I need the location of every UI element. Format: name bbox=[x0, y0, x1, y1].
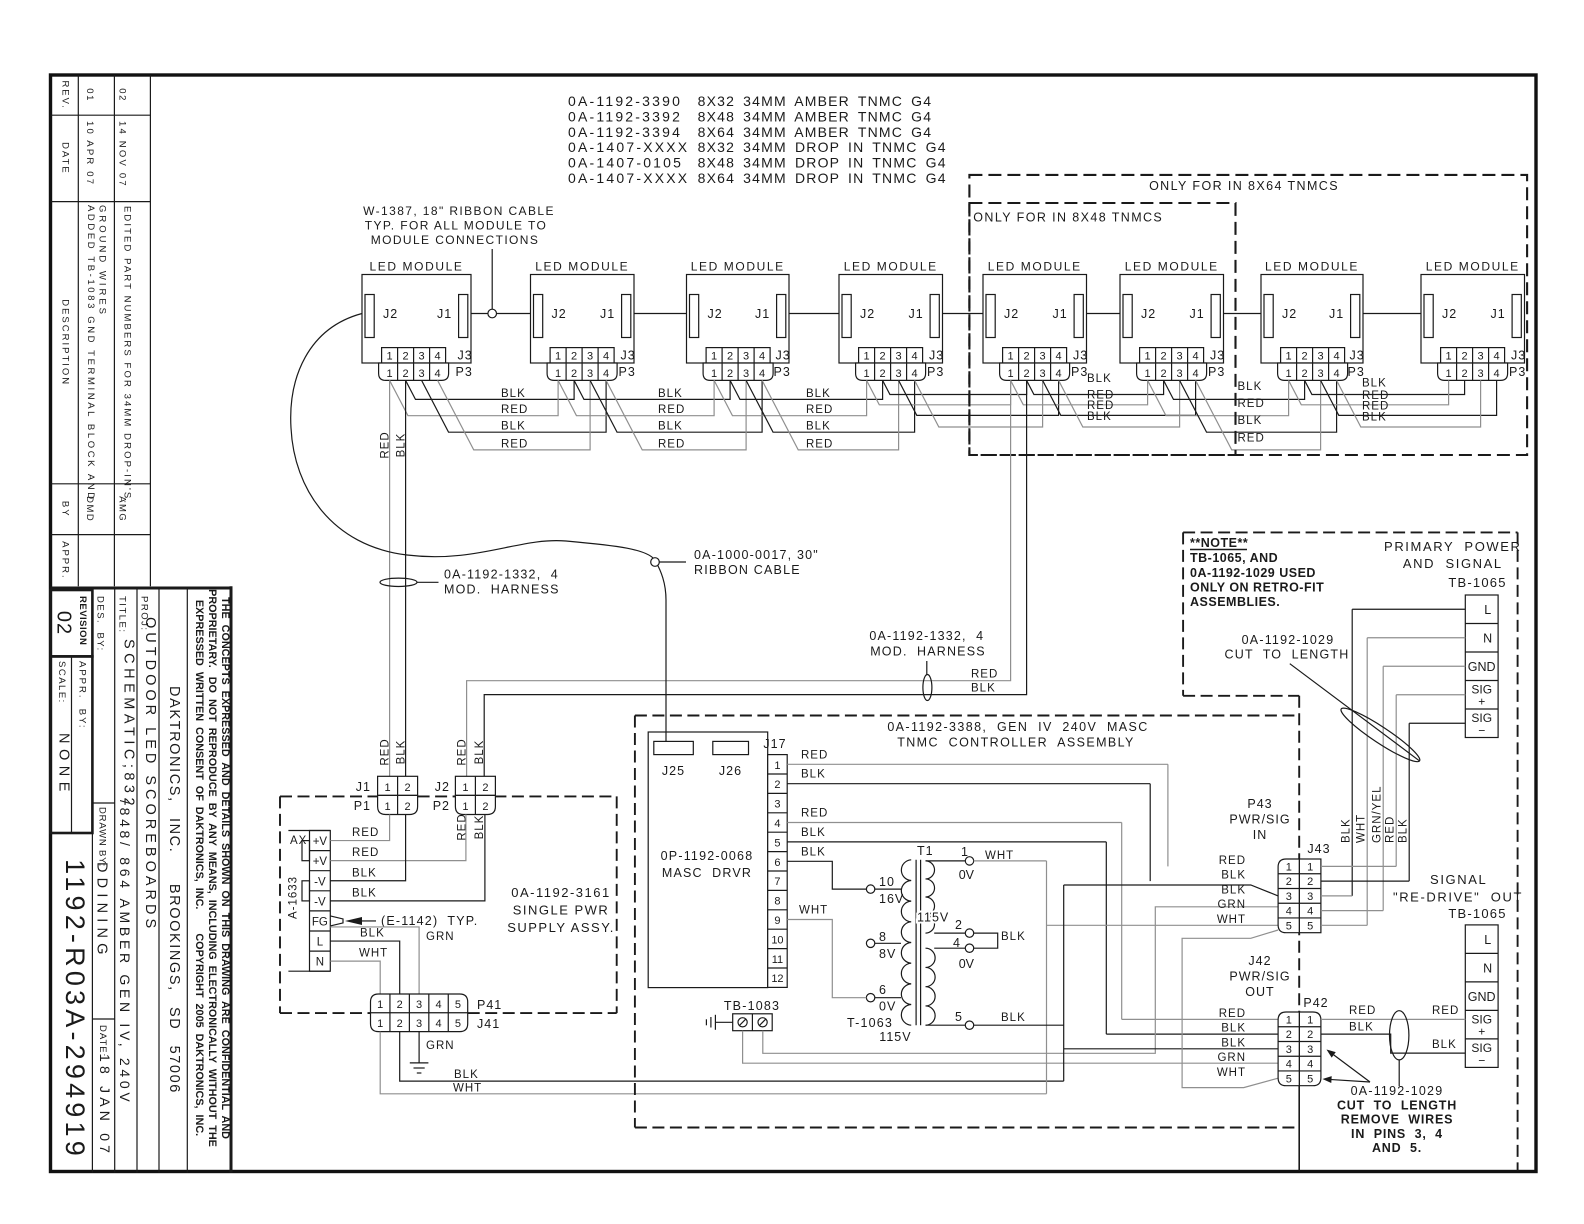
svg-text:T1: T1 bbox=[917, 844, 934, 858]
svg-text:J41: J41 bbox=[477, 1017, 500, 1031]
svg-text:1: 1 bbox=[1286, 861, 1292, 873]
svg-text:2: 2 bbox=[571, 351, 577, 363]
svg-text:RED: RED bbox=[806, 438, 833, 450]
svg-text:0V: 0V bbox=[959, 957, 975, 971]
svg-text:J2: J2 bbox=[708, 307, 723, 321]
svg-text:−: − bbox=[1478, 724, 1485, 738]
svg-text:J2: J2 bbox=[552, 307, 567, 321]
svg-text:SCHEMATIC;832: SCHEMATIC;832 bbox=[121, 639, 137, 810]
svg-text:02: 02 bbox=[117, 88, 128, 102]
svg-text:1: 1 bbox=[1446, 368, 1452, 380]
svg-text:1: 1 bbox=[1008, 351, 1014, 363]
svg-text:0A-1192-1029 USED: 0A-1192-1029 USED bbox=[1190, 566, 1316, 580]
svg-text:J3: J3 bbox=[1073, 349, 1088, 363]
svg-text:1: 1 bbox=[774, 760, 780, 772]
svg-text:1: 1 bbox=[711, 351, 717, 363]
svg-text:PWR/SIG: PWR/SIG bbox=[1229, 813, 1290, 827]
svg-text:RED: RED bbox=[1219, 1008, 1246, 1020]
svg-text:WHT: WHT bbox=[1356, 814, 1368, 843]
svg-text:10: 10 bbox=[879, 875, 895, 889]
svg-text:0P-1192-0068: 0P-1192-0068 bbox=[661, 849, 754, 863]
svg-text:2: 2 bbox=[1302, 351, 1308, 363]
svg-text:1: 1 bbox=[462, 782, 468, 794]
svg-text:4: 4 bbox=[1334, 351, 1340, 363]
svg-text:A-1633: A-1633 bbox=[288, 876, 300, 919]
svg-text:MOD. HARNESS: MOD. HARNESS bbox=[870, 645, 986, 659]
svg-text:DAKTRONICS, INC. BROOKINGS: DAKTRONICS, INC. BROOKINGS, SD 57006 bbox=[166, 686, 182, 1094]
svg-text:1: 1 bbox=[555, 368, 561, 380]
svg-text:P3: P3 bbox=[774, 365, 791, 379]
svg-text:RED: RED bbox=[658, 438, 685, 450]
svg-text:4: 4 bbox=[953, 936, 960, 950]
svg-text:2: 2 bbox=[1462, 351, 1468, 363]
svg-text:THE CONCEPTS EXPRESSED AND: THE CONCEPTS EXPRESSED AND DETAILS SHOWN… bbox=[219, 597, 231, 1139]
svg-text:J1: J1 bbox=[437, 307, 452, 321]
svg-text:BLK: BLK bbox=[1341, 818, 1353, 843]
svg-text:BLK: BLK bbox=[1087, 373, 1112, 385]
svg-text:BLK: BLK bbox=[801, 846, 826, 858]
svg-text:BLK: BLK bbox=[1238, 381, 1263, 393]
svg-text:4: 4 bbox=[1286, 1059, 1292, 1071]
svg-text:RED: RED bbox=[1238, 433, 1265, 445]
svg-text:J2: J2 bbox=[1282, 307, 1297, 321]
svg-text:DMD: DMD bbox=[84, 496, 95, 522]
svg-text:0V: 0V bbox=[959, 868, 975, 882]
svg-text:0A-1192-1029: 0A-1192-1029 bbox=[1351, 1084, 1444, 1098]
svg-text:1: 1 bbox=[1145, 351, 1151, 363]
svg-text:BLK: BLK bbox=[801, 827, 826, 839]
svg-text:CUT TO LENGTH: CUT TO LENGTH bbox=[1337, 1098, 1457, 1112]
svg-text:TYP. FOR ALL MODULE TO: TYP. FOR ALL MODULE TO bbox=[365, 219, 547, 233]
svg-text:TB-1083: TB-1083 bbox=[724, 999, 780, 1013]
svg-text:6: 6 bbox=[879, 983, 887, 997]
svg-text:16V: 16V bbox=[879, 892, 904, 906]
svg-text:0A-1192-3392: 0A-1192-3392 bbox=[568, 108, 682, 124]
svg-text:3: 3 bbox=[1286, 1044, 1292, 1056]
svg-text:J3: J3 bbox=[929, 349, 944, 363]
svg-text:BLK: BLK bbox=[352, 887, 377, 899]
svg-text:0A-1000-0017, 30": 0A-1000-0017, 30" bbox=[694, 548, 819, 562]
svg-text:4: 4 bbox=[1056, 351, 1062, 363]
svg-text:2: 2 bbox=[405, 801, 411, 813]
svg-text:BLK: BLK bbox=[352, 867, 377, 879]
svg-text:BLK: BLK bbox=[1362, 412, 1387, 424]
svg-text:2: 2 bbox=[397, 1018, 403, 1030]
svg-text:5: 5 bbox=[455, 1018, 461, 1030]
svg-text:DRAWN BY:: DRAWN BY: bbox=[97, 807, 108, 867]
svg-text:LED MODULE: LED MODULE bbox=[1426, 260, 1520, 274]
svg-text:T-1063: T-1063 bbox=[847, 1016, 893, 1030]
svg-text:4: 4 bbox=[759, 351, 765, 363]
svg-text:GRN/YEL: GRN/YEL bbox=[1372, 786, 1384, 844]
svg-text:RED: RED bbox=[457, 813, 469, 840]
svg-text:RED: RED bbox=[352, 847, 379, 859]
svg-text:ASSEMBLIES.: ASSEMBLIES. bbox=[1190, 595, 1280, 609]
svg-text:0A-1192-3161: 0A-1192-3161 bbox=[511, 885, 610, 900]
svg-text:6: 6 bbox=[774, 857, 780, 869]
svg-text:4: 4 bbox=[1494, 368, 1500, 380]
svg-text:L: L bbox=[317, 937, 324, 949]
svg-text:J3: J3 bbox=[1210, 349, 1225, 363]
svg-text:RED: RED bbox=[1432, 1005, 1459, 1017]
svg-text:2: 2 bbox=[1307, 876, 1313, 888]
svg-text:PROPRIETARY. DO NOT REPROD: PROPRIETARY. DO NOT REPRODUCE BY ANY MEA… bbox=[206, 589, 218, 1147]
svg-text:RED: RED bbox=[971, 669, 998, 681]
svg-text:J42: J42 bbox=[1248, 954, 1271, 968]
svg-text:4: 4 bbox=[912, 368, 918, 380]
svg-text:2: 2 bbox=[397, 999, 403, 1011]
svg-text:J26: J26 bbox=[719, 764, 742, 778]
svg-text:3: 3 bbox=[1318, 368, 1324, 380]
svg-text:J1: J1 bbox=[600, 307, 615, 321]
svg-text:LED MODULE: LED MODULE bbox=[535, 260, 629, 274]
svg-text:02: 02 bbox=[53, 611, 75, 635]
svg-text:01: 01 bbox=[84, 88, 95, 102]
svg-text:4: 4 bbox=[1056, 368, 1062, 380]
svg-text:2: 2 bbox=[482, 801, 488, 813]
svg-text:0A-1192-1332, 4: 0A-1192-1332, 4 bbox=[869, 629, 984, 643]
svg-text:1: 1 bbox=[387, 368, 393, 380]
svg-text:OUT: OUT bbox=[1245, 985, 1274, 999]
svg-text:1: 1 bbox=[1446, 351, 1452, 363]
svg-text:TB-1065: TB-1065 bbox=[1448, 906, 1506, 921]
svg-text:GRN: GRN bbox=[1217, 1052, 1246, 1064]
svg-text:BLK: BLK bbox=[1398, 818, 1410, 843]
svg-text:4: 4 bbox=[912, 351, 918, 363]
svg-text:EDITED PART NUMBERS FOR 34MM D: EDITED PART NUMBERS FOR 34MM DROP-IN'S. bbox=[122, 206, 133, 505]
svg-text:BLK: BLK bbox=[806, 388, 831, 400]
svg-text:RED: RED bbox=[1238, 398, 1265, 410]
svg-text:2: 2 bbox=[1161, 368, 1167, 380]
svg-text:9: 9 bbox=[774, 915, 780, 927]
svg-text:0A-1407-XXXX: 0A-1407-XXXX bbox=[568, 170, 689, 186]
svg-text:BLK: BLK bbox=[360, 928, 385, 940]
svg-text:J1: J1 bbox=[755, 307, 770, 321]
svg-text:3: 3 bbox=[896, 368, 902, 380]
svg-text:5: 5 bbox=[774, 837, 780, 849]
svg-text:APPR. BY:: APPR. BY: bbox=[77, 661, 88, 730]
svg-text:ONLY ON RETRO-FIT: ONLY ON RETRO-FIT bbox=[1190, 581, 1324, 595]
svg-text:5: 5 bbox=[455, 999, 461, 1011]
svg-text:BLK: BLK bbox=[474, 740, 486, 765]
svg-text:J2: J2 bbox=[1004, 307, 1019, 321]
svg-text:1192-R03A-294919: 1192-R03A-294919 bbox=[60, 859, 90, 1160]
svg-text:1: 1 bbox=[1008, 368, 1014, 380]
svg-text:4: 4 bbox=[603, 368, 609, 380]
svg-text:GRN: GRN bbox=[1217, 899, 1246, 911]
svg-text:P3: P3 bbox=[1071, 365, 1088, 379]
svg-text:GRN: GRN bbox=[426, 931, 455, 943]
svg-text:2: 2 bbox=[405, 782, 411, 794]
svg-text:0A-1192-3390: 0A-1192-3390 bbox=[568, 93, 682, 109]
svg-text:1: 1 bbox=[385, 782, 391, 794]
svg-text:AND SIGNAL: AND SIGNAL bbox=[1403, 556, 1503, 571]
svg-text:J3: J3 bbox=[458, 349, 473, 363]
svg-text:RED: RED bbox=[501, 404, 528, 416]
svg-text:1: 1 bbox=[1307, 861, 1313, 873]
svg-text:5: 5 bbox=[955, 1010, 962, 1024]
svg-text:FG: FG bbox=[312, 917, 328, 929]
svg-text:RED: RED bbox=[1349, 1005, 1376, 1017]
svg-text:RED: RED bbox=[380, 738, 392, 765]
svg-text:ONLY FOR IN 8X48 TNMCS: ONLY FOR IN 8X48 TNMCS bbox=[973, 211, 1163, 225]
svg-text:BLK: BLK bbox=[1221, 870, 1246, 882]
svg-text:4: 4 bbox=[759, 368, 765, 380]
svg-text:8X64 34MM AMBER TNMC G4: 8X64 34MM AMBER TNMC G4 bbox=[698, 124, 933, 140]
svg-text:4: 4 bbox=[1494, 351, 1500, 363]
svg-text:1: 1 bbox=[1145, 368, 1151, 380]
svg-text:BLK: BLK bbox=[1221, 1037, 1246, 1049]
svg-text:0A-1192-3394: 0A-1192-3394 bbox=[568, 124, 682, 140]
svg-text:1: 1 bbox=[1286, 1014, 1292, 1026]
svg-text:-V: -V bbox=[314, 876, 326, 888]
svg-text:4: 4 bbox=[1334, 368, 1340, 380]
svg-text:4: 4 bbox=[1193, 368, 1199, 380]
svg-text:BLK: BLK bbox=[1221, 1023, 1246, 1035]
svg-text:P3: P3 bbox=[619, 365, 636, 379]
svg-text:BY: BY bbox=[60, 501, 71, 518]
svg-text:+: + bbox=[1478, 1024, 1485, 1038]
svg-text:8X64 34MM DROP IN TNMC G4: 8X64 34MM DROP IN TNMC G4 bbox=[698, 170, 947, 186]
svg-text:DATE:: DATE: bbox=[97, 1025, 108, 1057]
svg-text:J43: J43 bbox=[1307, 842, 1330, 856]
svg-text:CUT TO LENGTH: CUT TO LENGTH bbox=[1225, 648, 1350, 662]
svg-text:P3: P3 bbox=[1208, 365, 1225, 379]
svg-text:5: 5 bbox=[1286, 1073, 1292, 1085]
svg-text:4: 4 bbox=[435, 999, 441, 1011]
svg-text:+V: +V bbox=[313, 856, 328, 868]
svg-text:P43: P43 bbox=[1247, 797, 1272, 811]
svg-text:1: 1 bbox=[864, 368, 870, 380]
svg-text:P2: P2 bbox=[433, 799, 450, 813]
svg-text:8: 8 bbox=[879, 930, 887, 944]
svg-text:LED MODULE: LED MODULE bbox=[1125, 260, 1219, 274]
svg-text:BLK: BLK bbox=[806, 421, 831, 433]
svg-text:BLK: BLK bbox=[501, 388, 526, 400]
svg-text:J1: J1 bbox=[1329, 307, 1344, 321]
svg-text:LED MODULE: LED MODULE bbox=[844, 260, 938, 274]
svg-text:0V: 0V bbox=[879, 1000, 896, 1014]
svg-text:1: 1 bbox=[1307, 1014, 1313, 1026]
svg-text:8: 8 bbox=[774, 896, 780, 908]
svg-text:BLK: BLK bbox=[1349, 1022, 1374, 1034]
svg-text:LED MODULE: LED MODULE bbox=[691, 260, 785, 274]
svg-text:3: 3 bbox=[416, 999, 422, 1011]
svg-text:AX: AX bbox=[290, 835, 307, 847]
svg-text:-V: -V bbox=[314, 896, 326, 908]
svg-text:WHT: WHT bbox=[453, 1083, 482, 1095]
svg-text:1: 1 bbox=[377, 999, 383, 1011]
svg-text:1: 1 bbox=[864, 351, 870, 363]
svg-text:3: 3 bbox=[774, 799, 780, 811]
svg-text:2: 2 bbox=[955, 918, 962, 932]
svg-text:3: 3 bbox=[1478, 368, 1484, 380]
svg-text:1: 1 bbox=[377, 1018, 383, 1030]
svg-text:1: 1 bbox=[385, 801, 391, 813]
svg-text:DATE: DATE bbox=[60, 142, 71, 175]
svg-text:TB-1065, AND: TB-1065, AND bbox=[1190, 551, 1278, 565]
svg-text:AND 5.: AND 5. bbox=[1372, 1141, 1422, 1155]
svg-text:2: 2 bbox=[1307, 1029, 1313, 1041]
svg-text:RED: RED bbox=[380, 431, 392, 458]
svg-text:J3: J3 bbox=[776, 349, 791, 363]
svg-text:4: 4 bbox=[1307, 906, 1313, 918]
svg-text:BLK: BLK bbox=[396, 433, 408, 458]
svg-text:P42: P42 bbox=[1303, 996, 1328, 1010]
svg-text:APPR.: APPR. bbox=[60, 541, 71, 580]
svg-text:115V: 115V bbox=[879, 1030, 911, 1044]
svg-text:12: 12 bbox=[771, 973, 783, 985]
svg-text:P1: P1 bbox=[354, 799, 371, 813]
svg-text:3: 3 bbox=[1318, 351, 1324, 363]
svg-text:WHT: WHT bbox=[1217, 1067, 1246, 1079]
svg-text:SINGLE PWR: SINGLE PWR bbox=[513, 903, 610, 918]
svg-text:3: 3 bbox=[1478, 351, 1484, 363]
svg-text:115V: 115V bbox=[917, 911, 949, 925]
svg-text:1: 1 bbox=[961, 845, 968, 859]
svg-text:18 JAN 07: 18 JAN 07 bbox=[97, 1054, 113, 1157]
svg-text:N: N bbox=[1483, 961, 1492, 975]
svg-text:3: 3 bbox=[416, 1018, 422, 1030]
svg-text:3: 3 bbox=[587, 368, 593, 380]
svg-text:2: 2 bbox=[1462, 368, 1468, 380]
svg-text:BLK: BLK bbox=[658, 421, 683, 433]
svg-text:2: 2 bbox=[1161, 351, 1167, 363]
svg-text:BLK: BLK bbox=[1001, 931, 1026, 943]
svg-text:5: 5 bbox=[1307, 920, 1313, 932]
svg-text:N: N bbox=[316, 957, 324, 969]
svg-text:/848/ 864 AMBER GEN IV, 240V: /848/ 864 AMBER GEN IV, 240V bbox=[117, 800, 133, 1105]
svg-text:2: 2 bbox=[880, 351, 886, 363]
svg-text:2: 2 bbox=[1302, 368, 1308, 380]
svg-text:RED: RED bbox=[801, 749, 828, 761]
svg-text:J2: J2 bbox=[860, 307, 875, 321]
svg-text:LED MODULE: LED MODULE bbox=[988, 260, 1082, 274]
svg-text:3: 3 bbox=[419, 368, 425, 380]
svg-text:P3: P3 bbox=[456, 365, 473, 379]
svg-text:8X48 34MM DROP IN TNMC G4: 8X48 34MM DROP IN TNMC G4 bbox=[698, 155, 947, 171]
svg-text:WHT: WHT bbox=[985, 850, 1014, 862]
svg-text:3: 3 bbox=[1040, 351, 1046, 363]
svg-text:P3: P3 bbox=[1509, 365, 1526, 379]
svg-text:4: 4 bbox=[603, 351, 609, 363]
svg-text:TNMC CONTROLLER ASSEMBLY: TNMC CONTROLLER ASSEMBLY bbox=[897, 736, 1135, 750]
svg-text:2: 2 bbox=[1024, 351, 1030, 363]
svg-text:BLK: BLK bbox=[971, 683, 996, 695]
svg-text:PWR/SIG: PWR/SIG bbox=[1229, 970, 1290, 984]
svg-text:REV.: REV. bbox=[60, 80, 71, 109]
svg-text:REMOVE WIRES: REMOVE WIRES bbox=[1341, 1113, 1454, 1127]
svg-text:2: 2 bbox=[571, 368, 577, 380]
svg-text:J2: J2 bbox=[1141, 307, 1156, 321]
svg-text:2: 2 bbox=[727, 351, 733, 363]
svg-text:RED: RED bbox=[658, 404, 685, 416]
svg-text:5: 5 bbox=[1307, 1073, 1313, 1085]
svg-text:J1: J1 bbox=[356, 780, 371, 794]
svg-text:8X48 34MM AMBER TNMC G4: 8X48 34MM AMBER TNMC G4 bbox=[698, 108, 933, 124]
svg-text:TB-1065: TB-1065 bbox=[1448, 575, 1506, 590]
svg-text:LED MODULE: LED MODULE bbox=[369, 260, 463, 274]
svg-text:P41: P41 bbox=[477, 998, 502, 1012]
svg-text:4: 4 bbox=[1286, 906, 1292, 918]
svg-text:WHT: WHT bbox=[799, 905, 828, 917]
svg-text:−: − bbox=[1478, 1053, 1485, 1067]
svg-text:RED: RED bbox=[801, 808, 828, 820]
svg-text:3: 3 bbox=[587, 351, 593, 363]
svg-text:5: 5 bbox=[1286, 920, 1292, 932]
svg-text:WHT: WHT bbox=[1217, 914, 1246, 926]
svg-text:"RE-DRIVE" OUT: "RE-DRIVE" OUT bbox=[1393, 890, 1523, 905]
svg-text:+V: +V bbox=[313, 836, 328, 848]
svg-text:BLK: BLK bbox=[1001, 1012, 1026, 1024]
svg-text:**NOTE**: **NOTE** bbox=[1190, 536, 1248, 550]
svg-text:DESCRIPTION: DESCRIPTION bbox=[60, 299, 71, 386]
svg-text:NONE: NONE bbox=[56, 733, 72, 797]
svg-text:DES. BY:: DES. BY: bbox=[95, 596, 106, 652]
svg-text:0A-1407-0105: 0A-1407-0105 bbox=[568, 155, 683, 171]
svg-text:GROUND WIRES: GROUND WIRES bbox=[97, 205, 108, 317]
svg-text:2: 2 bbox=[1286, 876, 1292, 888]
svg-text:2: 2 bbox=[403, 351, 409, 363]
svg-text:+: + bbox=[1478, 695, 1485, 709]
svg-text:BLK: BLK bbox=[396, 740, 408, 765]
svg-text:1: 1 bbox=[462, 801, 468, 813]
svg-text:4: 4 bbox=[435, 351, 441, 363]
svg-text:J1: J1 bbox=[1491, 307, 1506, 321]
svg-text:0A-1192-1029: 0A-1192-1029 bbox=[1242, 633, 1335, 647]
svg-text:J2: J2 bbox=[1442, 307, 1457, 321]
svg-text:SIGNAL: SIGNAL bbox=[1430, 872, 1487, 887]
svg-text:BLK: BLK bbox=[1362, 378, 1387, 390]
svg-text:OUTDOOR LED SCOREBOARDS: OUTDOOR LED SCOREBOARDS bbox=[142, 617, 158, 932]
svg-text:2: 2 bbox=[774, 779, 780, 791]
svg-text:3: 3 bbox=[743, 368, 749, 380]
svg-text:ONLY FOR IN 8X64 TNMCS: ONLY FOR IN 8X64 TNMCS bbox=[1149, 179, 1339, 193]
svg-text:MODULE CONNECTIONS: MODULE CONNECTIONS bbox=[371, 233, 540, 247]
svg-text:1: 1 bbox=[1286, 351, 1292, 363]
svg-text:3: 3 bbox=[896, 351, 902, 363]
svg-text:7: 7 bbox=[774, 876, 780, 888]
svg-text:REVISION: REVISION bbox=[77, 596, 88, 645]
svg-text:IN: IN bbox=[1253, 828, 1268, 842]
svg-text:1: 1 bbox=[555, 351, 561, 363]
svg-text:2: 2 bbox=[727, 368, 733, 380]
svg-text:BLK: BLK bbox=[454, 1069, 479, 1081]
svg-text:3: 3 bbox=[1040, 368, 1046, 380]
svg-text:SUPPLY ASSY.: SUPPLY ASSY. bbox=[507, 920, 615, 935]
svg-text:3: 3 bbox=[743, 351, 749, 363]
svg-text:J1: J1 bbox=[1190, 307, 1205, 321]
svg-text:EXPRESSED WRITTEN CONSENT O: EXPRESSED WRITTEN CONSENT OF DAKTRONICS,… bbox=[193, 600, 205, 1136]
svg-text:14 NOV 07: 14 NOV 07 bbox=[117, 121, 128, 188]
svg-text:J17: J17 bbox=[763, 737, 786, 751]
svg-text:(E-1142) TYP.: (E-1142) TYP. bbox=[381, 914, 478, 928]
svg-text:2: 2 bbox=[403, 368, 409, 380]
svg-text:IN PINS 3, 4: IN PINS 3, 4 bbox=[1351, 1127, 1443, 1141]
svg-text:3: 3 bbox=[1307, 891, 1313, 903]
svg-text:2: 2 bbox=[880, 368, 886, 380]
svg-text:BLK: BLK bbox=[801, 769, 826, 781]
svg-text:MOD. HARNESS: MOD. HARNESS bbox=[444, 583, 560, 597]
svg-text:PRIMARY POWER: PRIMARY POWER bbox=[1384, 539, 1522, 554]
svg-text:RED: RED bbox=[457, 738, 469, 765]
svg-text:2: 2 bbox=[1286, 1029, 1292, 1041]
svg-text:3: 3 bbox=[1177, 368, 1183, 380]
svg-text:4: 4 bbox=[435, 1018, 441, 1030]
svg-text:MASC DRVR: MASC DRVR bbox=[662, 866, 752, 880]
svg-text:RED: RED bbox=[806, 404, 833, 416]
svg-text:4: 4 bbox=[774, 818, 780, 830]
